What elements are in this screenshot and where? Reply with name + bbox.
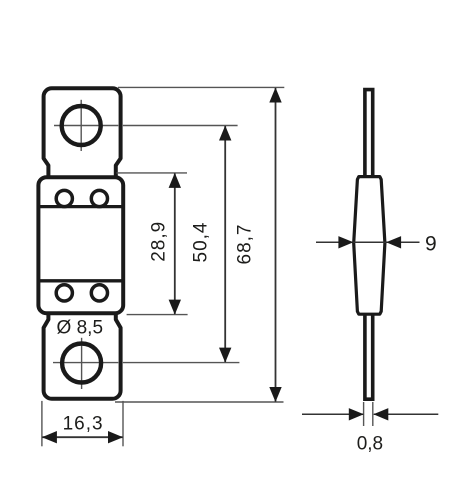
side view top terminal strip xyxy=(365,90,373,176)
svg-text:Ø 8,5: Ø 8,5 xyxy=(57,317,103,338)
dimension line 50,4 xyxy=(224,126,226,362)
arrow 9 left (pointing right) xyxy=(338,236,353,248)
svg-text:28,9: 28,9 xyxy=(148,221,169,262)
fuse body (front view) xyxy=(38,177,123,313)
dimension line 0,8 right part xyxy=(374,413,439,415)
arrow 0,8 right (pointing left) xyxy=(373,408,388,420)
arrow 16,3 left xyxy=(42,431,57,443)
dimension line 9 xyxy=(316,241,420,243)
extension line 0,8 left xyxy=(363,402,365,426)
extension line 16,3 left xyxy=(41,401,43,446)
rivet circle top-right xyxy=(91,190,107,206)
bottom terminal tab (front view) xyxy=(44,312,121,399)
arrow 28,9 down xyxy=(169,300,181,315)
rivet circle top-left xyxy=(56,190,72,206)
rivet circle bottom-right xyxy=(91,285,107,301)
svg-text:0,8: 0,8 xyxy=(357,433,383,454)
body separator line lower xyxy=(38,279,123,282)
side view fuse body xyxy=(354,177,385,315)
side view bottom terminal strip xyxy=(365,314,373,400)
top hole centerline vertical xyxy=(80,100,82,151)
extension line bottom (68,7) xyxy=(115,401,284,403)
bottom hole centerline horizontal inner segment xyxy=(53,362,118,364)
arrow 9 right (pointing left) xyxy=(386,236,401,248)
svg-text:68,7: 68,7 xyxy=(234,224,255,265)
50,4 bottom extension line xyxy=(123,362,239,364)
arrow 68,7 up xyxy=(269,88,281,103)
arrow 16,3 right xyxy=(108,431,123,443)
dimension line 16,3 xyxy=(43,436,123,438)
arrow 50,4 up xyxy=(219,126,231,141)
arrow 28,9 up xyxy=(169,173,181,188)
top hole centerline horizontal inner segment xyxy=(54,125,118,127)
top mounting hole xyxy=(62,106,101,145)
extension line top (68,7) xyxy=(118,86,284,88)
dimension line 68,7 xyxy=(275,88,277,402)
top terminal tab (front view) xyxy=(44,88,121,178)
svg-text:9: 9 xyxy=(425,233,437,256)
dimension line 0,8 left part xyxy=(302,413,363,415)
bottom mounting hole xyxy=(62,344,101,383)
extension line bottom (28,9) xyxy=(127,314,188,316)
arrow 68,7 down xyxy=(269,387,281,402)
extension line top (28,9) xyxy=(116,172,187,174)
arrow 50,4 down xyxy=(219,348,231,363)
svg-text:50,4: 50,4 xyxy=(190,222,211,263)
extension line 0,8 right xyxy=(372,402,374,426)
arrow 0,8 left (pointing right) xyxy=(349,408,364,420)
body separator line upper xyxy=(38,205,123,208)
svg-text:16,3: 16,3 xyxy=(63,414,104,435)
rivet circle bottom-left xyxy=(56,285,72,301)
dimension line 28,9 xyxy=(174,174,176,315)
bottom hole centerline vertical xyxy=(81,338,83,389)
50,4 top extension line xyxy=(123,125,238,127)
extension line 16,3 right xyxy=(122,401,124,446)
